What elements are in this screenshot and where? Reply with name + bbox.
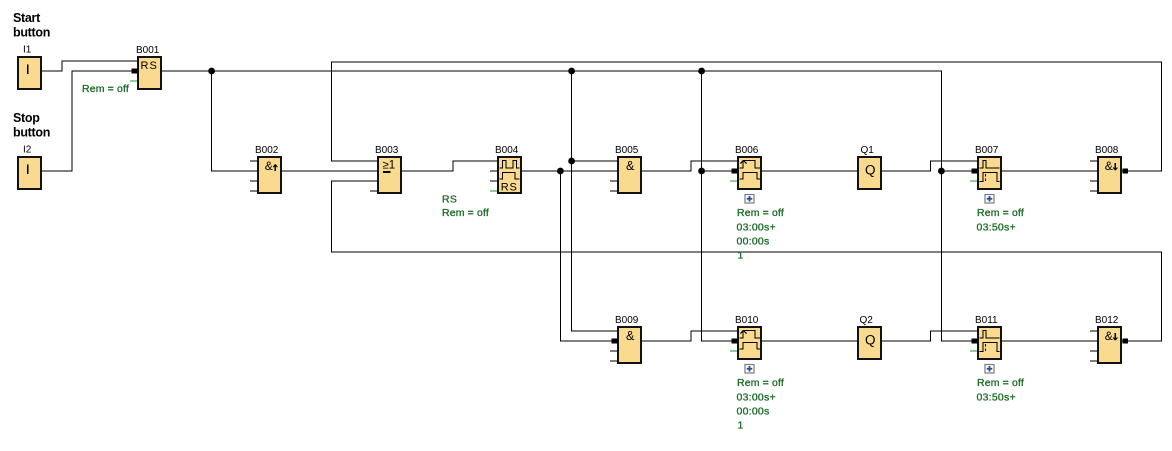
svg-text:Rem = off: Rem = off	[442, 207, 489, 219]
wire B010 output to Q2 input	[762, 340, 857, 342]
B009 input 2 connection square	[612, 338, 618, 343]
svg-text:Q: Q	[865, 333, 876, 348]
input I1	[18, 45, 41, 89]
svg-text:Q2: Q2	[860, 315, 874, 326]
B006 parameter pin (green)	[730, 180, 737, 182]
B004 unused input stubs	[490, 171, 497, 181]
svg-text:1: 1	[738, 250, 744, 262]
svg-text:03:00s+: 03:00s+	[737, 391, 776, 403]
svg-text:03:50s+: 03:50s+	[977, 391, 1016, 403]
svg-text:≥1: ≥1	[383, 160, 396, 172]
svg-text:B008: B008	[1095, 145, 1119, 156]
svg-text:B010: B010	[735, 315, 759, 326]
svg-text:Q: Q	[865, 163, 876, 178]
B007 expand parameter box	[985, 195, 994, 204]
svg-text:&: &	[265, 159, 273, 173]
B011 parameter pin (green)	[970, 350, 977, 352]
B012 output connection square	[1122, 338, 1128, 343]
svg-text:B002: B002	[255, 145, 279, 156]
block B004 (pulse relay)	[495, 145, 521, 193]
junction dot at 941,171	[938, 168, 945, 175]
svg-text:Rem = off: Rem = off	[737, 377, 784, 389]
svg-text:B011: B011	[975, 315, 998, 326]
B009 unused input stubs	[610, 351, 617, 361]
B005 unused input stubs	[610, 181, 617, 191]
wire Q1 output to B007 input 1 (jog at 930)	[882, 161, 977, 171]
B010 expand parameter box	[745, 365, 754, 374]
svg-text:RS: RS	[442, 193, 457, 205]
svg-text:B005: B005	[615, 145, 639, 156]
B011 parameter text	[977, 377, 1024, 403]
B007 input 2 connection square	[972, 168, 978, 173]
svg-text:I1: I1	[23, 45, 32, 56]
label: Start button	[13, 11, 50, 40]
B011 icon	[980, 330, 1000, 351]
wire branch x571 down to B005 input 1 and B009 input 1	[572, 71, 617, 331]
svg-text:button: button	[13, 26, 50, 40]
block B010 (edge triggered wiping relay)	[735, 315, 761, 359]
block B006 (edge triggered wiping relay)	[735, 145, 761, 189]
svg-text:Start: Start	[13, 11, 41, 25]
B001 input R connection square	[132, 68, 138, 73]
B004 parameter text RS / Rem = off	[442, 193, 489, 219]
svg-text:B012: B012	[1095, 315, 1119, 326]
svg-text:Rem = off: Rem = off	[737, 207, 784, 219]
wire B002 output to B003 input 2	[282, 170, 377, 172]
input I2	[18, 145, 41, 189]
svg-text:I2: I2	[23, 145, 32, 156]
B001 parameter pin (green)	[130, 80, 137, 82]
B012 unused input stubs	[1090, 331, 1097, 361]
B007 parameter pin (green)	[970, 180, 977, 182]
svg-text:button: button	[13, 126, 50, 140]
block B012 (AND falling edge)	[1095, 315, 1121, 363]
wire I2 output to B001 input R	[42, 71, 138, 171]
B002 unused input stubs	[250, 161, 257, 191]
svg-text:Rem = off: Rem = off	[82, 83, 129, 95]
B003 unused input stub 4	[370, 190, 377, 192]
B010 parameter pin (green)	[730, 350, 737, 352]
svg-text:Q1: Q1	[861, 145, 875, 156]
junction dot at 701,171	[698, 168, 705, 175]
svg-text:Rem = off: Rem = off	[977, 377, 1024, 389]
B011 input 2 connection square	[972, 338, 978, 343]
junction dot at 701,71	[698, 68, 705, 75]
svg-text:B009: B009	[615, 315, 639, 326]
svg-text:&: &	[1105, 329, 1113, 343]
junction dot at 211,71	[208, 68, 215, 75]
svg-text:&: &	[626, 329, 635, 343]
wire branch x560 down to B009 input 2	[560, 171, 617, 341]
svg-text:&: &	[626, 159, 635, 173]
wire B009 output to B010 input 1 (jog at 691)	[642, 331, 737, 341]
B010 icon	[740, 331, 760, 349]
wire B005 output to B006 input 1 (jog at 691)	[642, 161, 737, 171]
wire x941 branch right to B007 input 2	[941, 170, 977, 172]
output Q1	[858, 145, 881, 189]
B004 parameter pin (green)	[490, 190, 497, 192]
svg-text:00:00s: 00:00s	[737, 236, 770, 248]
svg-text:B001: B001	[136, 45, 160, 56]
svg-text:03:50s+: 03:50s+	[977, 221, 1016, 233]
wire B012 output feedback loop to B003 input 3	[332, 181, 1162, 341]
svg-text:03:00s+: 03:00s+	[737, 221, 776, 233]
B007 parameter text	[977, 207, 1024, 233]
B008 output connection square	[1122, 168, 1128, 173]
block B007 (wiping relay pulse output)	[975, 145, 1001, 189]
B011 expand parameter box	[985, 365, 994, 374]
block B008 (AND falling edge)	[1095, 145, 1121, 193]
wire B007 output to B008 input 2	[1002, 170, 1097, 172]
B006 icon	[740, 161, 760, 179]
junction dot at 560,171	[557, 168, 564, 175]
svg-text:Rem = off: Rem = off	[977, 207, 1024, 219]
wire x701 branch right to B006 input 2	[702, 170, 737, 172]
wire B006 output to Q1 input	[762, 170, 857, 172]
junction dot at 571,161	[568, 158, 575, 165]
junction dot at 571,71	[568, 68, 575, 75]
block B002 (AND rising edge)	[255, 145, 281, 193]
svg-text:&: &	[1105, 159, 1113, 173]
wire B008 output feedback loop to B003 input 1	[332, 62, 1162, 171]
wire branch x701 down to B006 input 2 and B010 input 2	[702, 71, 737, 341]
svg-text:B004: B004	[495, 145, 519, 156]
svg-text:RS: RS	[501, 182, 518, 194]
svg-text:B003: B003	[375, 145, 399, 156]
B010 input 2 connection square	[732, 338, 738, 343]
B007 icon	[980, 160, 1000, 181]
wire I1 output to B001 input S	[42, 61, 138, 71]
svg-text:Stop: Stop	[13, 111, 40, 125]
wire Q2 output to B011 input 1 (jog at 930)	[882, 331, 977, 341]
B004 pulse relay icon	[500, 160, 520, 193]
B006 expand parameter box	[745, 195, 754, 204]
block B005 (AND)	[615, 145, 641, 193]
wire branch x211 down to B002 input 2	[212, 71, 257, 171]
wire B004 output to B005 input 2	[522, 170, 617, 172]
B006 input 2 connection square	[732, 168, 738, 173]
B006 parameter text	[737, 207, 784, 262]
B010 parameter text	[737, 377, 784, 432]
label: Stop button	[13, 111, 50, 140]
output Q2	[858, 315, 881, 359]
svg-text:00:00s: 00:00s	[737, 406, 770, 418]
block B001 (RS latch)	[136, 45, 161, 89]
svg-text:1: 1	[738, 420, 744, 432]
svg-text:B006: B006	[735, 145, 759, 156]
block B009 (AND)	[615, 315, 641, 363]
wire x571 branch right to B005 input 1	[572, 160, 617, 162]
wire B001 output bus to x941	[162, 71, 977, 341]
B008 unused input stubs	[1090, 161, 1097, 191]
wire B003 output to B004 input 1 (jog at 453)	[402, 161, 497, 171]
block B011 (wiping relay pulse output)	[975, 315, 1001, 359]
svg-text:RS: RS	[141, 60, 158, 72]
block B003 (OR)	[375, 145, 401, 193]
svg-text:B007: B007	[975, 145, 999, 156]
wire B011 output to B012 input 2	[1002, 340, 1097, 342]
